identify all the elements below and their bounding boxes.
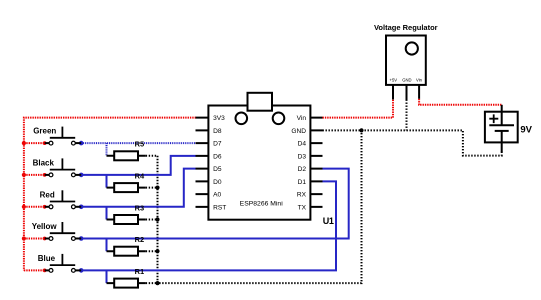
svg-text:D6: D6 [213,153,222,160]
svg-text:D0: D0 [213,179,222,186]
svg-text:Red: Red [40,190,55,199]
svg-text:Black: Black [33,159,55,168]
svg-text:D5: D5 [213,166,222,173]
svg-text:Blue: Blue [38,254,56,263]
svg-text:Vin: Vin [297,115,307,122]
svg-text:A0: A0 [213,192,221,199]
svg-text:3V3: 3V3 [213,115,225,122]
svg-text:R5: R5 [135,140,145,149]
svg-text:RST: RST [213,204,226,211]
svg-text:R1: R1 [135,267,145,276]
svg-text:RX: RX [297,192,307,199]
svg-text:R4: R4 [135,172,145,181]
svg-text:R2: R2 [135,235,145,244]
svg-text:Green: Green [33,127,56,136]
svg-text:D1: D1 [298,179,307,186]
svg-text:Yellow: Yellow [32,222,58,231]
svg-text:D4: D4 [298,141,307,148]
svg-text:D3: D3 [298,153,307,160]
svg-text:D2: D2 [298,166,307,173]
svg-text:ESP8266 Mini: ESP8266 Mini [240,201,284,208]
svg-text:GND: GND [402,77,411,82]
svg-text:R3: R3 [135,203,145,212]
svg-text:D7: D7 [213,141,222,148]
svg-text:9V: 9V [520,124,532,135]
svg-text:+5V: +5V [390,77,398,82]
svg-text:U1: U1 [323,216,334,226]
svg-text:TX: TX [298,204,307,211]
svg-text:D8: D8 [213,128,222,135]
svg-text:Vin: Vin [416,77,423,82]
svg-text:Voltage Regulator: Voltage Regulator [374,23,438,32]
svg-text:GND: GND [291,128,306,135]
